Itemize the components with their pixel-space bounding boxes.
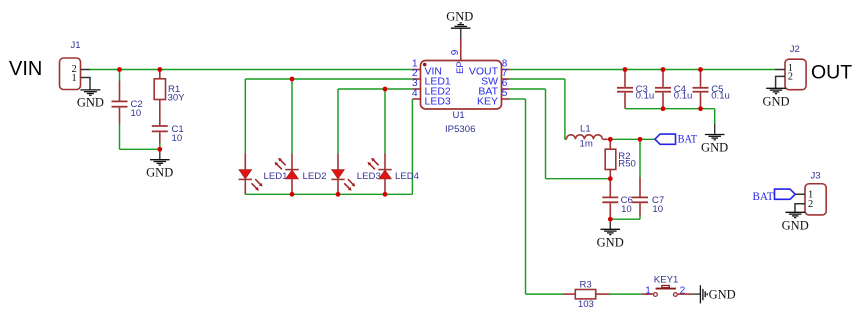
wire LED2 row	[338, 88, 413, 90]
wire R3 to KEY1	[610, 293, 643, 295]
J2 pin 2 stub	[776, 76, 785, 88]
resistor R1	[154, 70, 185, 126]
svg-text:IP5306: IP5306	[445, 124, 475, 135]
junction BAT/C7	[638, 137, 643, 142]
svg-text:0.1u: 0.1u	[636, 91, 655, 102]
svg-text:GND: GND	[701, 141, 728, 155]
connector J1	[60, 40, 81, 90]
ground at J3 pin 2	[782, 212, 809, 232]
svg-text:KEY: KEY	[477, 96, 498, 108]
wire C7 bottom	[639, 216, 641, 220]
svg-text:10: 10	[131, 108, 142, 119]
J1 pin 2 stub	[81, 69, 91, 71]
wire SW to L1	[565, 138, 567, 140]
wire KEY1 to ground	[692, 293, 700, 295]
capacitor C2	[112, 81, 143, 124]
svg-text:LED2: LED2	[303, 171, 327, 182]
switch KEY1	[642, 275, 692, 297]
U1 pin 5 KEY	[502, 98, 510, 100]
U1 pin 1 VIN	[413, 69, 421, 71]
capacitor C5	[693, 70, 730, 109]
wire LED4 column top	[384, 89, 386, 154]
J1 pin 1 stub	[81, 78, 91, 90]
junction rail/LED4	[383, 192, 388, 197]
U1 pin 3 LED2	[413, 88, 421, 90]
wire LED3 column top	[337, 89, 339, 154]
junction rail/LED2	[290, 192, 295, 197]
svg-text:2: 2	[788, 72, 793, 83]
wire L1 to BAT flag	[607, 138, 655, 140]
U1 pin 4 LED3	[413, 98, 421, 100]
svg-text:J3: J3	[811, 171, 821, 182]
wire LED1 column top	[244, 79, 246, 154]
capacitor C4	[655, 70, 692, 109]
wire BAT pin vertical	[545, 89, 547, 179]
connector J2	[785, 44, 806, 90]
wire capacitor bottom rail	[625, 108, 715, 110]
connector J3	[805, 171, 826, 215]
ground at C1	[146, 149, 173, 179]
svg-text:GND: GND	[709, 287, 736, 301]
junction caps rail C5	[698, 106, 703, 111]
junction caps rail C4	[661, 106, 666, 111]
ground at J1 pin 1	[77, 90, 104, 110]
svg-text:1m: 1m	[580, 138, 593, 149]
ground at C6	[597, 219, 624, 249]
svg-text:0.1u: 0.1u	[674, 91, 693, 102]
svg-text:GND: GND	[77, 96, 104, 110]
junction LED2 row / LED4 column	[383, 87, 388, 92]
capacitor C3	[617, 70, 654, 109]
svg-text:LED1: LED1	[264, 171, 288, 182]
op-amp U1 IP5306 body	[421, 61, 502, 136]
svg-text:LED3: LED3	[425, 96, 451, 108]
resistor R2	[605, 139, 636, 178]
svg-text:KEY1: KEY1	[654, 275, 679, 286]
junction C6 ground node	[608, 217, 613, 222]
wire VIN main rail	[90, 69, 413, 71]
wire KEY pin horizontal	[510, 98, 526, 100]
svg-text:GND: GND	[597, 235, 624, 249]
svg-text:1: 1	[645, 286, 651, 297]
wire BAT pin horizontal	[510, 88, 546, 90]
svg-text:4: 4	[412, 88, 418, 99]
svg-text:GND: GND	[146, 166, 173, 180]
junction VIN/C2	[117, 67, 122, 72]
wire C2 top	[119, 70, 121, 82]
svg-text:GND: GND	[446, 9, 473, 23]
ground at J2 pin 2	[762, 88, 789, 108]
svg-text:0.1u: 0.1u	[711, 91, 730, 102]
wire C6-C7 bottom rail	[610, 218, 640, 220]
junction VOUT/C5	[698, 67, 703, 72]
LED LED1	[239, 154, 263, 195]
LED LED4	[368, 154, 392, 195]
junction L1/R2	[608, 137, 613, 142]
wire C2 bottom	[119, 123, 121, 149]
junction C1/C2 ground node	[157, 147, 162, 152]
U1 pin 2 LED1	[413, 78, 421, 80]
svg-text:103: 103	[578, 299, 594, 310]
svg-text:BAT: BAT	[753, 189, 775, 203]
capacitor C7	[632, 178, 664, 217]
svg-text:EP: EP	[455, 61, 466, 74]
inductor L1	[566, 124, 607, 150]
svg-text:30Y: 30Y	[168, 93, 186, 104]
LED LED3	[331, 154, 355, 195]
resistor R3	[563, 279, 610, 310]
ground at KEY1 (sideways)	[700, 285, 735, 303]
net flag BAT at J3	[753, 189, 796, 203]
svg-text:5: 5	[502, 88, 508, 99]
J3 pin 2 stub	[795, 204, 805, 212]
junction VOUT/C3	[623, 67, 628, 72]
junction VOUT/C4	[661, 67, 666, 72]
wire C7 top	[639, 139, 641, 178]
wire KEY to R3	[526, 293, 564, 295]
U1 pin 6 BAT	[502, 88, 510, 90]
wire LED3 net vertical	[411, 99, 413, 194]
svg-text:L1: L1	[580, 124, 591, 135]
wire KEY pin vertical	[525, 99, 527, 294]
wire LED1 row	[245, 78, 412, 80]
svg-text:LED3: LED3	[357, 171, 381, 182]
svg-text:VIN: VIN	[9, 58, 42, 80]
ground at output caps	[701, 124, 728, 155]
svg-text:OUT: OUT	[811, 62, 852, 84]
U1 pin 9 EP	[460, 38, 462, 60]
junction rail/LED3	[336, 192, 341, 197]
svg-text:9: 9	[450, 49, 461, 55]
U1 pin 8 VOUT	[502, 69, 510, 71]
junction LED1 row / LED2 column	[290, 77, 295, 82]
wire SW horizontal	[510, 78, 565, 80]
svg-text:10: 10	[652, 204, 663, 215]
wire BAT pin to R2 bottom	[546, 178, 611, 180]
wire LED bottom rail	[245, 193, 412, 195]
ground above U1 pin 9	[446, 9, 473, 38]
LED LED2	[275, 154, 299, 195]
svg-text:BAT: BAT	[678, 132, 698, 146]
net flag BAT (battery node)	[655, 132, 698, 146]
wire C2-C1 bottom rail	[120, 148, 160, 150]
svg-text:R50: R50	[618, 159, 636, 170]
svg-text:LED4: LED4	[395, 171, 420, 182]
wire caps rail to ground	[714, 109, 716, 125]
svg-text:1: 1	[72, 73, 77, 84]
U1 pin 7 SW	[502, 78, 510, 80]
svg-text:J1: J1	[71, 40, 81, 51]
wire C1 bottom	[159, 143, 161, 149]
svg-text:J2: J2	[790, 44, 800, 55]
svg-text:10: 10	[621, 204, 632, 215]
svg-text:2: 2	[680, 286, 686, 297]
junction VIN/R1	[157, 67, 162, 72]
junction R2/C6	[608, 176, 613, 181]
svg-text:GND: GND	[762, 95, 789, 109]
svg-text:U1: U1	[453, 110, 465, 121]
capacitor C6	[602, 179, 633, 220]
svg-text:GND: GND	[782, 219, 809, 233]
capacitor C1	[152, 124, 184, 144]
J3 pin 1 stub	[795, 193, 805, 195]
svg-text:R3: R3	[580, 279, 592, 290]
svg-text:10: 10	[172, 133, 183, 144]
wire VOUT rail	[510, 69, 776, 71]
wire SW vertical	[564, 79, 566, 139]
svg-text:2: 2	[808, 199, 813, 210]
wire LED2 column top	[291, 79, 293, 154]
J2 pin 1 stub	[775, 69, 785, 71]
